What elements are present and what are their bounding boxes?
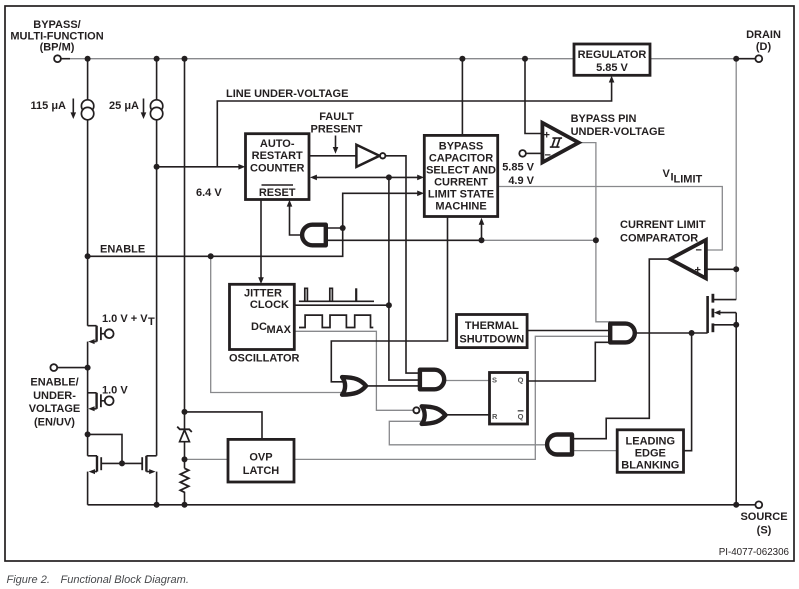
label auto-restart counter text xyxy=(250,138,304,199)
label REGULATOR 5.85 V xyxy=(578,49,647,74)
wire bypass box top from bus xyxy=(461,59,463,136)
label 1.0 V + VT xyxy=(102,313,155,328)
transistor Q4 mirror right xyxy=(142,456,155,474)
gate A4 leading edge AND (left facing) xyxy=(547,435,572,455)
svg-text:CLOCK: CLOCK xyxy=(250,299,289,311)
svg-text:(S): (S) xyxy=(757,525,772,537)
label latch pins S Q R Qbar xyxy=(492,376,524,422)
svg-text:MACHINE: MACHINE xyxy=(435,201,486,213)
svg-text:−: − xyxy=(696,245,702,257)
svg-text:CURRENT: CURRENT xyxy=(434,177,488,189)
wire zener to resistor xyxy=(184,442,186,469)
wire LEB AND output to R-OR input xyxy=(389,421,546,445)
wire fault present pointer xyxy=(335,136,337,149)
label bypass state machine text xyxy=(426,141,496,213)
transistor Q1 1.0V+VT xyxy=(88,326,113,344)
wire bypass UV comparator plus input xyxy=(525,59,541,134)
wire OVP latch output to AND xyxy=(294,336,610,459)
svg-text:REGULATOR: REGULATOR xyxy=(578,49,647,61)
gate A2 S-input AND xyxy=(420,370,444,390)
wire clock feedback vertical xyxy=(389,177,420,380)
wire source rail xyxy=(88,504,737,506)
wire current limit comparator output xyxy=(573,259,668,439)
svg-text:JITTER: JITTER xyxy=(244,288,282,300)
svg-text:V: V xyxy=(663,168,671,180)
wire counter to inverter xyxy=(309,155,357,157)
svg-text:PI-4077-062306: PI-4077-062306 xyxy=(719,547,790,558)
transistor Q1 channel jogs xyxy=(88,326,97,342)
wire big AND output to gate xyxy=(635,332,708,334)
transistor Q4 channel jogs xyxy=(146,456,156,472)
transistor Q3 mirror left xyxy=(89,456,102,474)
svg-text:AUTO-: AUTO- xyxy=(260,138,295,150)
svg-text:VOLTAGE: VOLTAGE xyxy=(29,403,81,415)
wire zener branch from bus xyxy=(184,59,186,429)
wire ENABLE net xyxy=(88,193,420,256)
label CURRENT LIMIT COMPARATOR xyxy=(620,219,706,245)
svg-text:5.85 V: 5.85 V xyxy=(596,62,628,74)
svg-text:S: S xyxy=(492,376,497,385)
wire LINE UNDER-VOLTAGE to regulator xyxy=(217,80,611,167)
svg-text:5.85 V: 5.85 V xyxy=(502,162,534,174)
arrowhead counter to oscillator xyxy=(258,277,264,284)
svg-text:MAX: MAX xyxy=(267,324,292,336)
wire DCMAX to OR bubble xyxy=(295,331,414,410)
wire bypass UV minus stub xyxy=(526,152,541,154)
wire MOSFET body tie xyxy=(717,312,737,314)
gate A1 reset AND (left facing) xyxy=(302,225,326,246)
box auto-restart counter xyxy=(246,134,310,200)
wire 25uA branch upper xyxy=(156,59,158,100)
wire S input of latch xyxy=(445,380,490,382)
svg-text:UNDER-VOLTAGE: UNDER-VOLTAGE xyxy=(571,126,665,138)
box bypass capacitor select state machine xyxy=(424,135,497,216)
svg-text:+: + xyxy=(695,264,701,276)
wire resistor to source rail xyxy=(184,492,186,505)
wire R-OR output to latch xyxy=(444,414,490,416)
transistor Q4 source to rail xyxy=(156,472,158,505)
node clock top xyxy=(386,174,392,180)
node bypass bottom xyxy=(479,237,485,243)
wire bypass UV comparator output xyxy=(581,143,610,322)
node drain comparator tap xyxy=(733,266,739,272)
wire VILIMIT net xyxy=(498,187,723,251)
svg-text:OSCILLATOR: OSCILLATOR xyxy=(229,353,300,365)
svg-text:THERMAL: THERMAL xyxy=(465,320,519,332)
svg-text:BLANKING: BLANKING xyxy=(621,460,679,472)
svg-text:RESTART: RESTART xyxy=(252,150,303,162)
node MOSFET source xyxy=(733,322,739,328)
node drain xyxy=(733,56,739,62)
pin circle DRAIN xyxy=(755,55,762,62)
current source I1 115uA xyxy=(71,99,94,120)
label SOURCE (S) xyxy=(740,511,787,537)
label thermal shutdown text xyxy=(459,320,524,346)
wire source pin stub xyxy=(736,504,755,506)
svg-text:COUNTER: COUNTER xyxy=(250,163,304,175)
svg-text:Q: Q xyxy=(518,412,524,421)
label 5.85 V / 4.9 V xyxy=(502,162,534,188)
transistor Q3 gate lead xyxy=(101,462,122,464)
label leading edge blanking text xyxy=(621,436,679,472)
wire source vertical xyxy=(735,313,737,505)
node enable gray tap xyxy=(208,253,214,259)
wire mirror gate tie xyxy=(88,434,122,463)
wire drain pin stub xyxy=(736,58,755,60)
node clock out xyxy=(386,302,392,308)
node reset AND input xyxy=(340,225,346,231)
svg-text:COMPARATOR: COMPARATOR xyxy=(620,233,698,245)
svg-text:DRAIN: DRAIN xyxy=(746,29,781,41)
pin circle EN/UV xyxy=(50,364,57,371)
box OVP latch xyxy=(228,439,294,482)
svg-text:SHUTDOWN: SHUTDOWN xyxy=(459,334,524,346)
box regulator 5.85V xyxy=(574,44,650,75)
svg-text:LATCH: LATCH xyxy=(243,465,280,477)
svg-text:Functional Block Diagram.: Functional Block Diagram. xyxy=(61,574,189,586)
arrowhead into counter right xyxy=(310,175,317,181)
wire current limit comparator plus input xyxy=(706,268,736,270)
transistor Q2 channel jogs xyxy=(88,393,97,409)
svg-text:(BP/M): (BP/M) xyxy=(40,42,75,54)
arrowhead into counter left xyxy=(238,164,245,170)
wire reset AND top input stub xyxy=(326,227,343,229)
label DRAIN (D) xyxy=(746,29,781,53)
svg-text:BYPASS: BYPASS xyxy=(439,141,483,153)
svg-text:EDGE: EDGE xyxy=(635,448,666,460)
svg-text:1.0 V + V: 1.0 V + V xyxy=(102,313,148,325)
wire EN/UV pin stub xyxy=(57,367,87,369)
label oscillator text xyxy=(229,288,300,365)
transistor Q1 to EN/UV node xyxy=(87,342,89,409)
label BYPASS PIN UNDER-VOLTAGE xyxy=(571,113,665,138)
svg-text:LIMIT STATE: LIMIT STATE xyxy=(428,189,494,201)
svg-text:T: T xyxy=(148,316,155,328)
transistor M5 output MOSFET xyxy=(708,294,721,333)
wire reset AND bottom input line xyxy=(326,239,482,241)
transistor Q2 1.0V xyxy=(88,393,113,412)
node EN/UV xyxy=(85,365,91,371)
label OVP latch text xyxy=(243,452,280,478)
label FAULT PRESENT xyxy=(311,111,363,136)
box leading edge blanking xyxy=(617,430,683,473)
svg-text:LIMIT: LIMIT xyxy=(674,174,703,186)
gate O2 reset OR (with bubble) xyxy=(413,406,445,424)
label BYPASS/MULTI-FUNCTION (BP/M) xyxy=(10,19,103,54)
wire node to bypass state machine bottom xyxy=(482,239,596,241)
wire enable to jitter OR input xyxy=(211,256,344,392)
op-amp U4 current limit comparator xyxy=(670,240,706,278)
gate O1 jitter OR xyxy=(342,377,366,395)
arrowhead into bypass box y177 xyxy=(417,175,424,181)
svg-text:RESET: RESET xyxy=(259,187,296,199)
wire thermal shutdown output xyxy=(527,330,610,332)
wire counter to oscillator xyxy=(260,200,262,280)
node mirror tie A xyxy=(85,431,91,437)
box thermal shutdown xyxy=(457,315,528,348)
arrowhead into bypass bottom xyxy=(479,218,485,225)
wire MOSFET source stub xyxy=(714,324,737,326)
svg-text:CURRENT LIMIT: CURRENT LIMIT xyxy=(620,219,706,231)
resistor R1 xyxy=(180,468,188,492)
node zener top xyxy=(182,409,188,415)
current source I2 25uA xyxy=(141,99,163,120)
wire bypass box bottom arrow xyxy=(481,222,483,241)
node mirror tie B xyxy=(119,460,125,466)
wire bypass box bottom to jitter OR xyxy=(331,217,447,382)
svg-text:SELECT AND: SELECT AND xyxy=(426,165,496,177)
pin circle BP/M xyxy=(54,55,61,62)
node 6.4V tap xyxy=(154,164,160,170)
caption figure 2 xyxy=(7,574,189,586)
svg-text:−: − xyxy=(545,150,551,162)
inverter U2 fault present xyxy=(356,145,385,167)
arrowhead reset up xyxy=(287,200,293,207)
zener diode VR1 xyxy=(177,427,192,442)
svg-text:SOURCE: SOURCE xyxy=(740,511,787,523)
arrowhead into bypass box y193 xyxy=(417,191,424,197)
svg-text:LEADING: LEADING xyxy=(626,436,676,448)
wire OVP latch input xyxy=(185,458,229,460)
wire MOSFET drain stub xyxy=(714,299,737,301)
gate A3 big AND to gate driver xyxy=(610,324,635,343)
svg-text:ENABLE: ENABLE xyxy=(100,244,145,256)
svg-text:Figure 2.: Figure 2. xyxy=(7,574,50,586)
wire counter-bypass handshake xyxy=(314,176,420,178)
node zener bottom xyxy=(182,456,188,462)
svg-text:+: + xyxy=(544,130,550,142)
wire clock output xyxy=(295,304,389,306)
svg-text:115 μA: 115 μA xyxy=(31,100,67,112)
wire BP/M pin stub xyxy=(61,58,70,60)
wire LEB output xyxy=(573,450,617,452)
DCMAX waveform xyxy=(299,315,373,327)
svg-text:ENABLE/: ENABLE/ xyxy=(30,376,78,388)
latch U3 SR flip-flop xyxy=(490,373,528,425)
svg-text:1.0 V: 1.0 V xyxy=(102,385,128,397)
junction dots on bus xyxy=(85,56,91,62)
svg-text:(EN/UV): (EN/UV) xyxy=(34,417,75,429)
wire reset AND output to RESET xyxy=(290,203,302,235)
svg-text:4.9 V: 4.9 V xyxy=(508,175,534,187)
wire drain vertical xyxy=(735,59,737,300)
svg-text:R: R xyxy=(492,412,498,421)
transistor Q2 to mirror xyxy=(87,409,89,456)
wire 115uA branch upper xyxy=(87,59,89,100)
svg-text:CAPACITOR: CAPACITOR xyxy=(429,153,493,165)
svg-text:DC: DC xyxy=(251,321,267,333)
svg-text:6.4 V: 6.4 V xyxy=(196,187,222,199)
wire OVP latch top tap xyxy=(185,412,263,440)
svg-text:MULTI-FUNCTION: MULTI-FUNCTION xyxy=(10,30,103,42)
svg-text:FAULT: FAULT xyxy=(319,111,354,123)
svg-text:Q: Q xyxy=(518,376,524,385)
wire jitter OR output xyxy=(364,385,420,387)
svg-text:25 μA: 25 μA xyxy=(109,100,139,112)
svg-text:(D): (D) xyxy=(756,41,772,53)
node source rail end xyxy=(733,502,739,508)
svg-text:LINE UNDER-VOLTAGE: LINE UNDER-VOLTAGE xyxy=(226,88,348,100)
wire 25uA branch to Q4 drain xyxy=(156,120,158,456)
wire top bus regulator to drain node xyxy=(649,58,736,60)
node rail at 25uA xyxy=(154,502,160,508)
op-amp U1 bypass pin under-voltage comparator xyxy=(519,123,578,163)
transistor Q3 source to rail xyxy=(87,472,89,505)
transistor Q3 channel jogs xyxy=(88,456,97,472)
arrowhead into regulator xyxy=(609,76,615,83)
node enable tap xyxy=(85,253,91,259)
wire inverter output to S-AND xyxy=(386,156,421,373)
node rail at resistor xyxy=(182,502,188,508)
svg-text:UNDER-: UNDER- xyxy=(33,390,76,402)
arrowhead fault present xyxy=(333,147,339,154)
svg-text:BYPASS PIN: BYPASS PIN xyxy=(571,113,637,125)
box oscillator xyxy=(230,284,295,349)
wire latch Q to big AND xyxy=(528,342,611,381)
wire 6.4V into counter xyxy=(157,166,241,168)
label VILIMIT xyxy=(663,168,703,186)
svg-text:OVP: OVP xyxy=(249,452,272,464)
svg-text:BYPASS/: BYPASS/ xyxy=(33,19,80,31)
node comparator down xyxy=(593,237,599,243)
wire 115uA branch lower to Q1 xyxy=(87,120,89,326)
clock waveform xyxy=(299,288,374,301)
node gate line xyxy=(689,330,695,336)
wire top bus BP/M to regulator xyxy=(66,58,575,60)
transistor Q4 gate lead xyxy=(122,462,142,464)
svg-text:PRESENT: PRESENT xyxy=(311,124,363,136)
pin circle SOURCE xyxy=(755,501,762,508)
label ENABLE/UNDER-VOLTAGE (EN/UV) xyxy=(29,376,81,428)
wire gate node to LEB input xyxy=(684,333,692,451)
